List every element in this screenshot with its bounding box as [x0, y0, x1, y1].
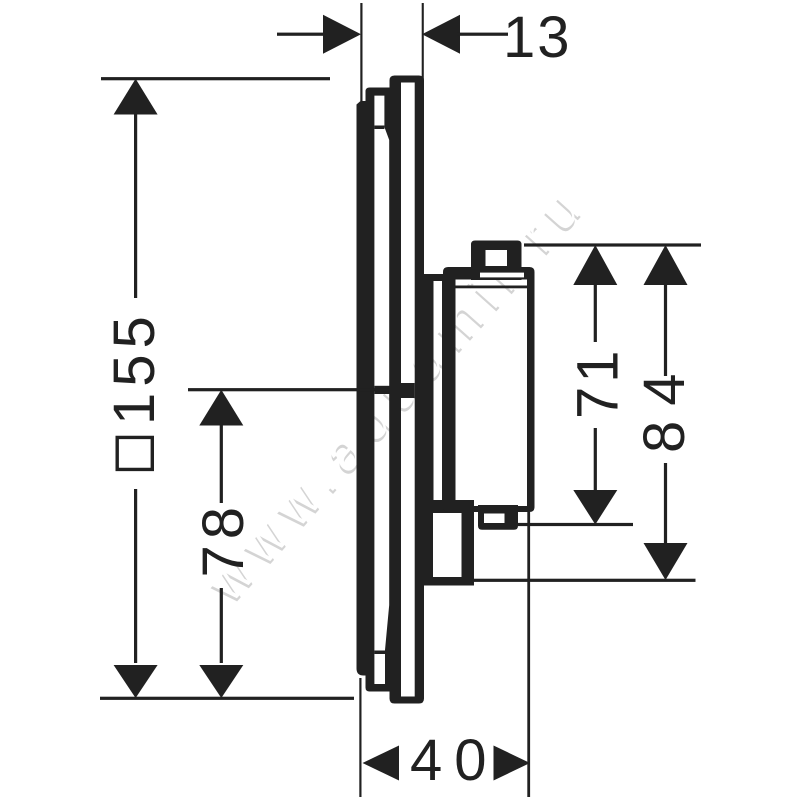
- wall box step (below cartridge): [424, 500, 474, 586]
- dim 13: left line: [277, 33, 324, 36]
- dim 78: bottom arrow: [199, 665, 243, 698]
- carrier plate top divider line: [374, 126, 384, 130]
- knob base slot: [480, 273, 524, 278]
- dim 155: top arrow: [114, 79, 158, 115]
- dim 71: lower line: [594, 428, 597, 490]
- dim 84: bottom extension line: [474, 579, 696, 582]
- watermark www.aquamir.ru: [194, 171, 601, 616]
- svg-text:155: 155: [102, 310, 167, 425]
- dim 84: top arrow: [644, 245, 688, 285]
- svg-text:71: 71: [566, 346, 631, 419]
- basic set housing (tall profile element, 13 mm): [390, 76, 425, 704]
- dim 13: left extension line: [360, 3, 362, 101]
- svg-text:78: 78: [191, 501, 256, 578]
- svg-text:40: 40: [410, 728, 499, 793]
- dim 71/84: top extension line: [524, 243, 701, 246]
- dim 84: lower line: [664, 463, 667, 544]
- dim 84: upper line: [664, 283, 667, 376]
- plate joint block: [401, 383, 415, 398]
- dim 78: upper line: [220, 424, 223, 503]
- dim 78: top arrow: [199, 390, 243, 426]
- dim 155: lower line: [134, 489, 137, 663]
- svg-text:84: 84: [632, 358, 697, 453]
- dim 78: top extension line: [188, 388, 390, 391]
- plate joint thickening: [375, 386, 390, 394]
- escutcheon plate (left profile bar): [357, 101, 375, 676]
- carrier plate bottom divider line: [374, 651, 385, 655]
- dim 40: right arrow: [494, 746, 531, 781]
- dim 155: bottom extension line: [100, 697, 354, 700]
- dim 13: right extension line: [422, 3, 424, 82]
- dim 13: right line: [457, 33, 508, 36]
- dim 13: left arrow: [323, 15, 361, 54]
- dim 71: top arrow: [573, 245, 617, 285]
- dim 84: bottom arrow: [644, 543, 688, 580]
- dim 155: bottom arrow: [114, 665, 158, 698]
- thermostat cartridge body: [443, 267, 535, 512]
- dim 71: bottom arrow: [573, 490, 617, 525]
- dim 71: upper line: [594, 283, 597, 342]
- carrier plate (middle profile element): [366, 88, 402, 692]
- dim 155: upper line: [134, 113, 137, 298]
- mounting bracket (behind cartridge): [424, 274, 448, 512]
- dim 71: bottom extension line: [517, 523, 633, 526]
- cartridge inner top line: [456, 286, 528, 289]
- dim 78: lower line: [220, 588, 223, 663]
- dim 40: left arrow: [363, 746, 400, 781]
- svg-text:13: 13: [503, 5, 572, 70]
- cartridge top knob: [471, 241, 522, 281]
- dim 155: square symbol: [116, 436, 155, 471]
- dim 40: left extension line: [359, 678, 361, 797]
- dim 13: right arrow: [422, 15, 460, 54]
- cartridge bottom knob: [478, 505, 518, 530]
- dim 155: top extension line: [101, 77, 330, 80]
- dim 40: right extension line: [527, 512, 530, 797]
